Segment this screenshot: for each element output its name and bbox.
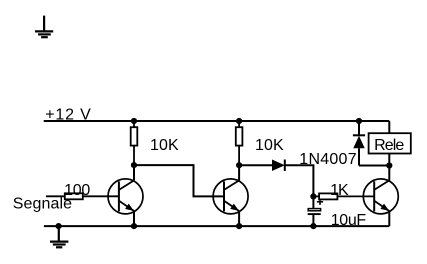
wire node B to D1 — [239, 164, 272, 166]
wire Q3 emitter to ground rail — [388, 211, 390, 226]
junction rail/GND2 — [56, 223, 62, 229]
resistor R2 10K (vertical) — [236, 121, 243, 165]
transistor Q3 (NPN) — [363, 179, 398, 214]
capacitor C1 10uF (electrolytic, polarized) — [308, 196, 321, 226]
resistor R3 100 (horizontal, input) — [46, 193, 119, 199]
wire Q2 emitter — [238, 211, 240, 226]
resistor R1 10K (vertical) — [131, 121, 138, 165]
svg-text:Rele: Rele — [374, 137, 404, 154]
junction rail/C1 — [310, 223, 316, 229]
wire Q2 collector — [238, 165, 240, 180]
svg-text:10K: 10K — [255, 137, 284, 154]
polarity mark + (C1) — [317, 199, 323, 205]
flyback diode D2 (vertical, across relay) — [353, 121, 365, 166]
transistor Q1 (NPN) — [108, 179, 143, 214]
wire node A to Q2 base — [134, 165, 224, 196]
wire D2 anode to node D — [359, 165, 389, 167]
svg-text:1K: 1K — [330, 182, 349, 199]
node A junction R1/Q1 collector — [131, 162, 137, 168]
wire Q1 collector — [133, 165, 135, 180]
node B junction R2/Q2 collector/D1 — [236, 162, 242, 168]
wire D1 cathode to node C — [285, 165, 314, 196]
junction rail/R1 — [131, 118, 137, 124]
diode D1 1N4007 (horizontal) — [272, 160, 285, 172]
wire ground rail (bottom) — [44, 225, 389, 227]
junction rail/D2 — [356, 118, 362, 124]
node C junction D1/C1/R4 — [310, 193, 316, 199]
svg-text:10K: 10K — [150, 137, 179, 154]
resistor R4 1K (horizontal) — [313, 193, 374, 199]
wire +12V rail — [44, 120, 390, 122]
svg-text:100: 100 — [64, 182, 90, 199]
junction rail/Q1 emitter — [131, 223, 137, 229]
wire Q1 emitter — [133, 211, 135, 226]
node D junction relay/D2/Q3 collector — [386, 162, 392, 168]
junction rail/Q2 emitter — [236, 223, 242, 229]
transistor Q2 (NPN) — [213, 179, 248, 214]
relay K1 (Rele box) — [369, 121, 411, 180]
ground GND2 (bottom rail) — [50, 226, 68, 247]
ground GND1 (floating, top-left) — [35, 16, 53, 38]
junction rail/R2 — [236, 118, 242, 124]
